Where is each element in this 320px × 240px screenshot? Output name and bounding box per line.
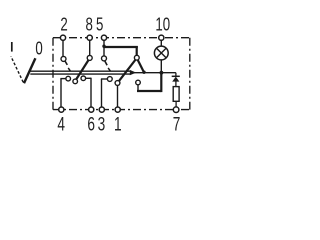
svg-text:1: 1 (114, 113, 122, 135)
svg-text:2: 2 (60, 14, 67, 35)
svg-text:7: 7 (173, 113, 181, 135)
svg-text:5: 5 (96, 14, 103, 35)
svg-text:4: 4 (57, 113, 65, 135)
svg-text:8: 8 (86, 14, 93, 35)
svg-text:3: 3 (98, 113, 106, 135)
svg-text:6: 6 (87, 113, 95, 135)
svg-text:10: 10 (155, 14, 170, 35)
svg-text:0: 0 (35, 38, 42, 59)
